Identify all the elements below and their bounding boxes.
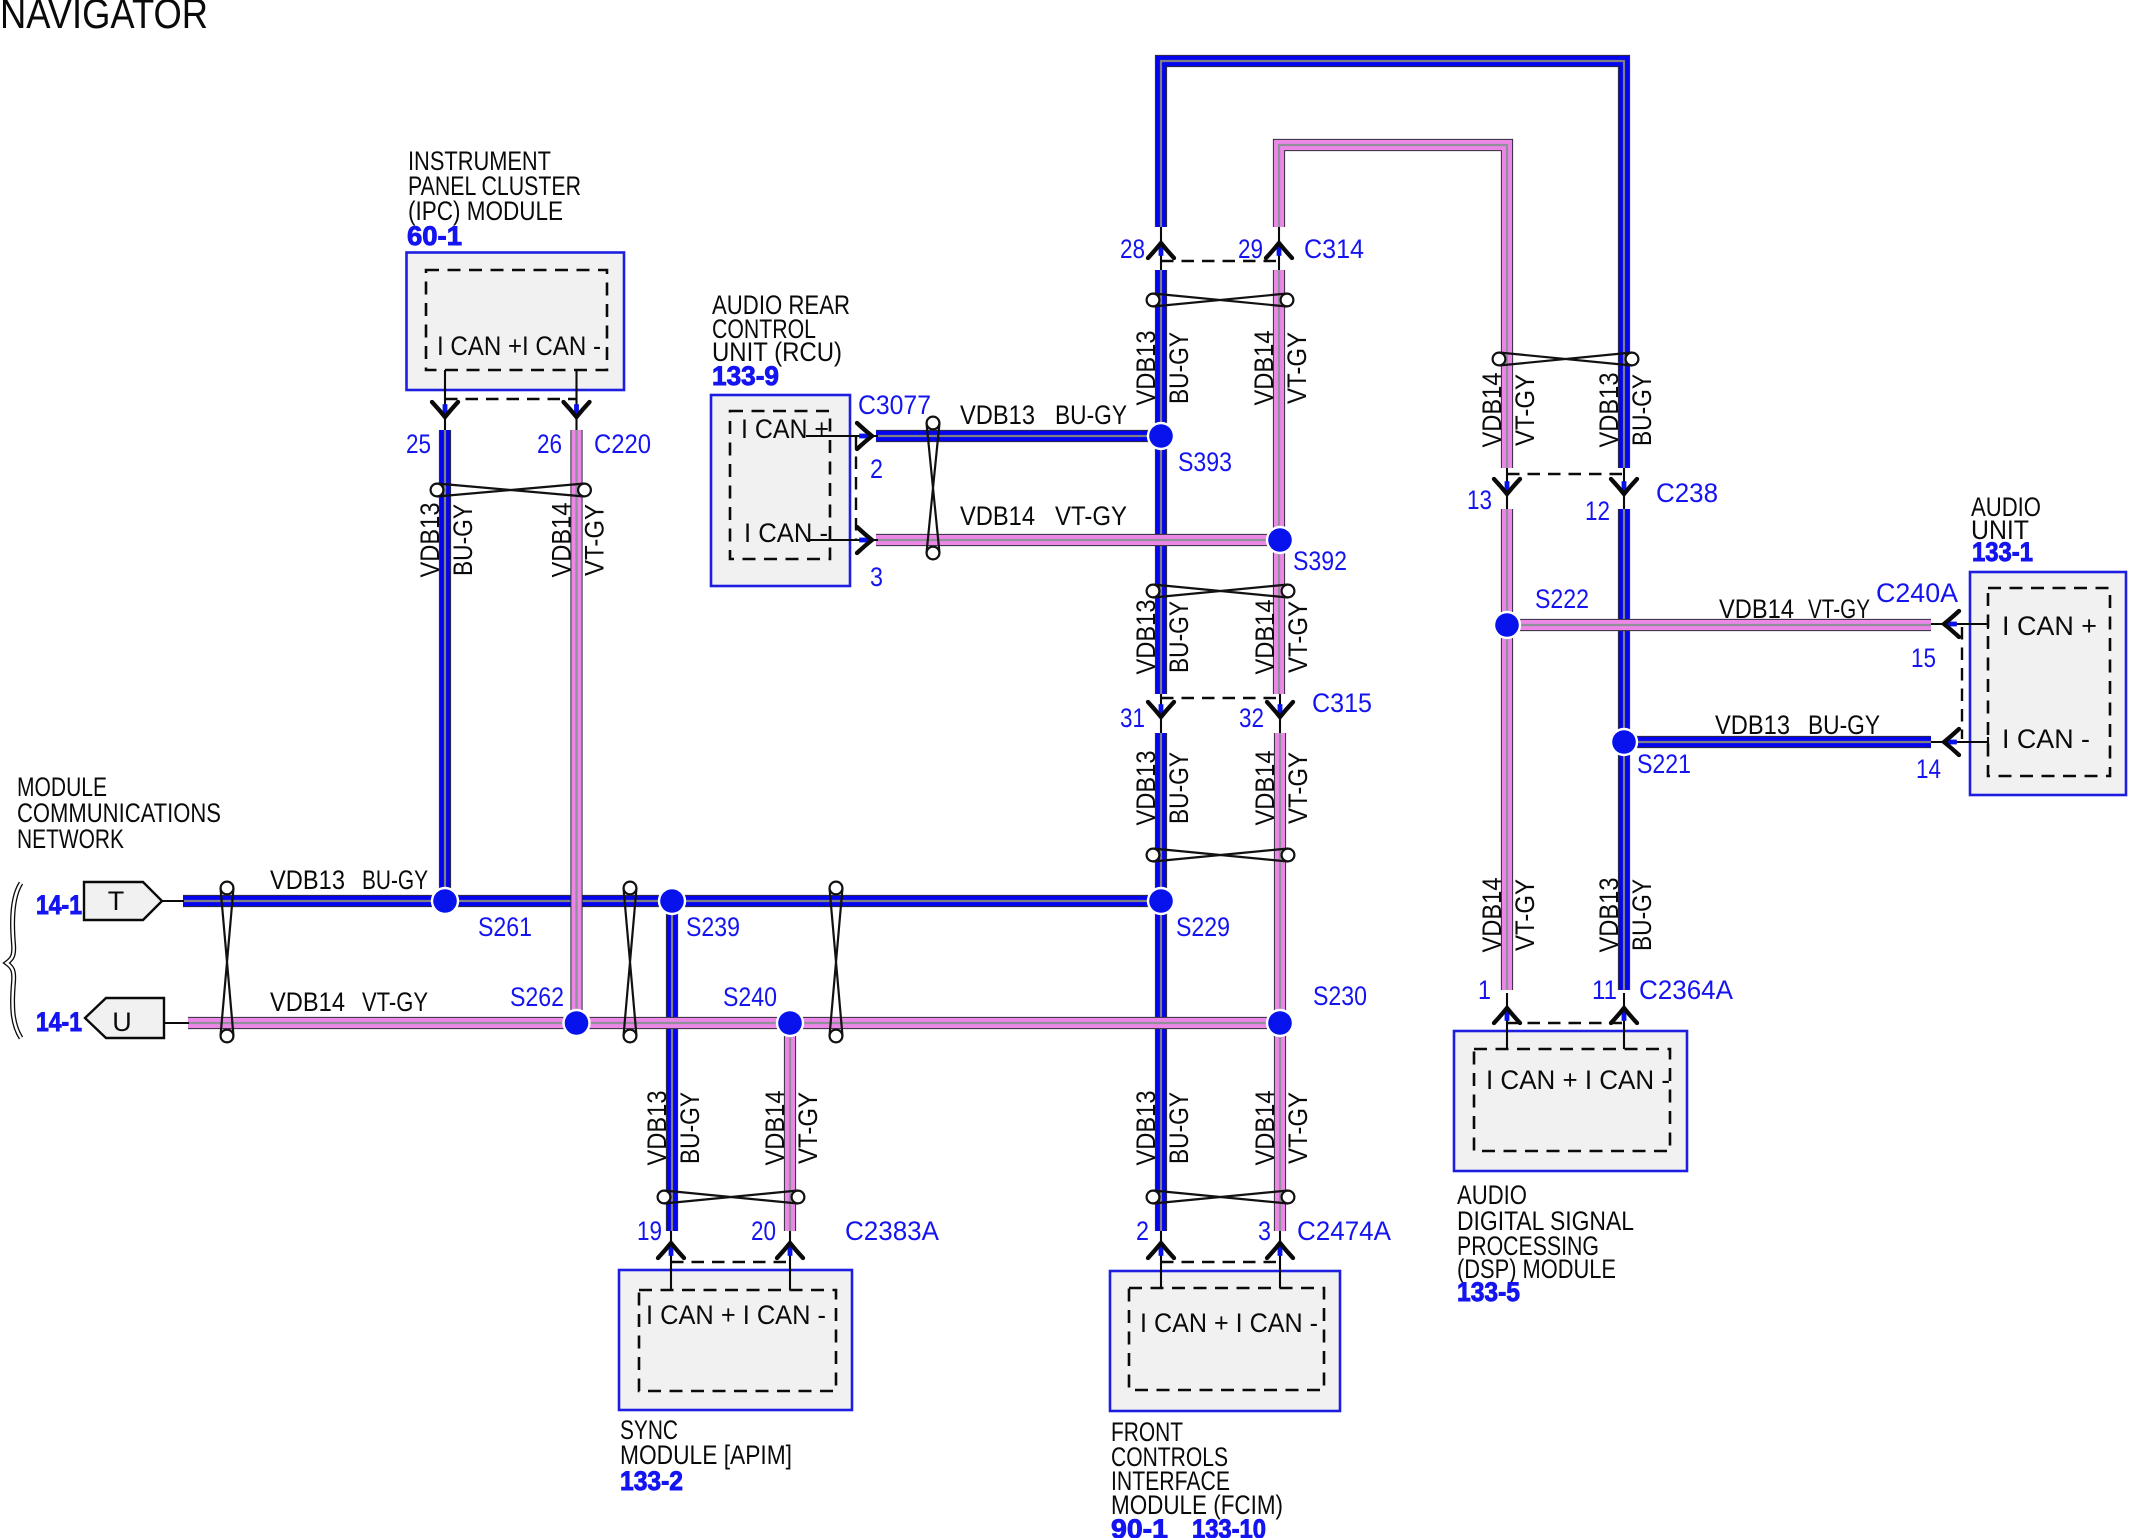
svg-text:C2474A: C2474A — [1297, 1216, 1391, 1246]
SYNC pin20 lead — [789, 1231, 791, 1290]
C315 pin32 arrow — [1267, 702, 1293, 717]
svg-text:BU-GY: BU-GY — [675, 1092, 705, 1164]
connector C238 dashed boundary — [1507, 473, 1624, 475]
FCIM pin3 lead — [1279, 1231, 1281, 1288]
labels VDB14/VT-GY above FCIM — [1250, 1091, 1313, 1166]
FCIM pin2 arrow — [1148, 1243, 1174, 1258]
wire VDB14 top loop pin29 up across to C238 pin13 — [1279, 145, 1507, 468]
RCU pin3 lead — [806, 539, 878, 541]
C238 pin12 arrow — [1611, 479, 1637, 494]
svg-text:25: 25 — [406, 429, 431, 459]
svg-text:20: 20 — [751, 1216, 776, 1246]
svg-text:S240: S240 — [723, 982, 777, 1012]
svg-text:133-10: 133-10 — [1192, 1514, 1266, 1538]
twisted pair symbol above C238 — [1493, 353, 1639, 366]
svg-text:S261: S261 — [478, 912, 532, 942]
Audio Unit pin15 lead — [1931, 623, 1988, 625]
svg-text:VT-GY: VT-GY — [1283, 601, 1313, 673]
svg-text:133-5: 133-5 — [1457, 1277, 1520, 1307]
svg-text:133-2: 133-2 — [620, 1466, 683, 1496]
svg-text:VT-GY: VT-GY — [580, 504, 610, 576]
connector C2364A dashed boundary — [1507, 1022, 1624, 1024]
node T tag (circuit 14-1) — [84, 882, 162, 920]
svg-text:BU-GY: BU-GY — [1164, 1092, 1194, 1164]
svg-text:I CAN +: I CAN + — [2002, 611, 2097, 641]
svg-text:VDB14: VDB14 — [1250, 600, 1280, 675]
wire VDB14 S222 to Audio Unit pin15 — [1507, 619, 1931, 631]
twisted pair symbol above FCIM C2474A — [1147, 1191, 1295, 1204]
splice S230 — [1266, 1009, 1294, 1037]
svg-text:S262: S262 — [510, 982, 564, 1012]
svg-text:VDB13: VDB13 — [415, 503, 445, 578]
wire VDB14 middle vertical C315 to FCIM pin3 — [1274, 733, 1286, 1231]
wire VDB14 IPC pin26 vertical to S262 — [570, 430, 582, 1023]
svg-text:14-1: 14-1 — [36, 890, 82, 920]
svg-text:S221: S221 — [1637, 749, 1691, 779]
wire VDB14 RCU pin3 to S392 — [876, 534, 1280, 546]
svg-text:U: U — [112, 1007, 132, 1037]
FCIM pin3 arrow — [1267, 1243, 1293, 1258]
svg-text:28: 28 — [1120, 234, 1145, 264]
svg-text:VT-GY: VT-GY — [1808, 594, 1870, 624]
labels VDB13/BU-GY above C238 — [1594, 373, 1657, 448]
svg-text:C238: C238 — [1656, 478, 1718, 508]
svg-text:VDB13: VDB13 — [1131, 600, 1161, 675]
module SYNC (APIM) box — [619, 1270, 852, 1410]
svg-text:VDB14: VDB14 — [1249, 331, 1279, 406]
C314 pin28 through line — [1160, 227, 1162, 270]
svg-text:VDB13: VDB13 — [1131, 751, 1161, 826]
svg-text:133-9: 133-9 — [712, 361, 779, 391]
svg-text:BU-GY: BU-GY — [1164, 752, 1194, 824]
Audio Unit pin14 lead — [1931, 741, 1988, 743]
module IPC (Instrument Panel Cluster) box — [407, 253, 625, 391]
svg-text:11: 11 — [1592, 975, 1617, 1005]
svg-text:C2364A: C2364A — [1639, 975, 1733, 1005]
module Audio Unit box — [1970, 572, 2126, 795]
splice S229 — [1147, 887, 1175, 915]
svg-text:2: 2 — [870, 454, 883, 484]
C314 pin28 arrow — [1148, 243, 1174, 258]
DSP pin11 lead — [1623, 993, 1625, 1049]
splice S221 — [1610, 728, 1638, 756]
connector C315 dashed boundary — [1161, 697, 1280, 699]
svg-text:VT-GY: VT-GY — [1055, 501, 1127, 531]
node U tag (circuit 14-1) — [85, 998, 164, 1038]
RCU pin3 arrow — [857, 527, 872, 553]
labels VDB14/VT-GY above C314 — [1249, 331, 1312, 406]
svg-text:I CAN -: I CAN - — [744, 518, 828, 548]
wire VDB13 middle vertical C315 to FCIM pin2 — [1155, 733, 1167, 1231]
IPC pin25 lead — [444, 370, 446, 430]
svg-text:VDB14: VDB14 — [760, 1091, 790, 1166]
svg-text:VDB13: VDB13 — [1131, 331, 1161, 406]
svg-text:29: 29 — [1238, 234, 1263, 264]
labels VDB14/VT-GY on IPC pink drop — [547, 503, 610, 578]
brace for module communications network — [7, 883, 22, 1038]
IPC pin26 lead — [575, 370, 577, 430]
twisted pair symbol below C314 — [1147, 294, 1294, 307]
connector C240A dashed boundary — [1961, 627, 1963, 739]
svg-text:I CAN + I CAN -: I CAN + I CAN - — [1140, 1308, 1318, 1338]
svg-text:VDB13: VDB13 — [960, 400, 1035, 430]
SYNC pin19 lead — [670, 1231, 672, 1290]
splice S222 — [1493, 611, 1521, 639]
DSP pin11 arrow — [1611, 1008, 1637, 1023]
wire VDB13 top loop pin28 up across to C238 pin12 — [1161, 61, 1624, 468]
connector C2474A dashed boundary — [1161, 1261, 1280, 1263]
labels VDB14/VT-GY below C315 — [1250, 751, 1313, 826]
wire VDB13 main bus from T to S229 — [183, 895, 1161, 907]
splice S261 — [431, 887, 459, 915]
labels VDB14/VT-GY above DSP — [1477, 878, 1540, 953]
connector C220 dashed boundary — [445, 398, 576, 400]
twisted pair symbol below IPC C220 — [431, 484, 591, 497]
labels VDB14/VT-GY below S392 — [1250, 600, 1313, 675]
svg-text:VDB13: VDB13 — [1594, 373, 1624, 448]
labels VDB13/BU-GY above DSP — [1594, 878, 1657, 953]
svg-text:VT-GY: VT-GY — [1283, 1092, 1313, 1164]
svg-text:S222: S222 — [1535, 584, 1589, 614]
svg-text:S239: S239 — [686, 912, 740, 942]
DSP pin1 arrow — [1494, 1008, 1520, 1023]
svg-text:NAVIGATOR: NAVIGATOR — [0, 0, 208, 37]
svg-text:3: 3 — [870, 562, 883, 592]
wire lead from T tag — [162, 900, 184, 902]
SYNC pin19 arrow — [658, 1243, 684, 1258]
wire VDB13 IPC pin25 vertical to S261 — [439, 430, 451, 901]
labels VDB13/BU-GY above FCIM — [1131, 1091, 1194, 1166]
wire VDB13 middle vertical C314 to C315 — [1155, 270, 1167, 694]
wire VDB14 middle vertical C314 to C315 — [1273, 270, 1285, 694]
labels VDB14/VT-GY above SYNC — [760, 1091, 823, 1166]
svg-text:VT-GY: VT-GY — [1283, 752, 1313, 824]
twisted pair symbol below S392 — [1147, 585, 1295, 598]
twisted pair symbol above S229 — [1147, 849, 1295, 862]
splice S392 — [1266, 526, 1294, 554]
C315 pin32 through line — [1279, 694, 1281, 733]
svg-text:VDB13: VDB13 — [642, 1091, 672, 1166]
DSP pin1 lead — [1506, 993, 1508, 1049]
svg-text:BU-GY: BU-GY — [362, 865, 428, 895]
FCIM pin2 lead — [1160, 1231, 1162, 1288]
wire VDB13 S221 to Audio Unit pin14 — [1624, 736, 1931, 748]
svg-text:VT-GY: VT-GY — [1510, 374, 1540, 446]
svg-text:VDB13: VDB13 — [270, 865, 345, 895]
svg-text:NETWORK: NETWORK — [17, 824, 124, 854]
wire VDB13 right vertical C238 to DSP pin11 — [1618, 509, 1630, 990]
splice S239 — [658, 887, 686, 915]
svg-text:I CAN -: I CAN - — [2002, 724, 2090, 754]
twisted pair symbol on bus right of S240 — [830, 882, 843, 1043]
module RCU (Audio Rear Control Unit) box — [711, 395, 850, 586]
svg-text:32: 32 — [1239, 703, 1264, 733]
svg-text:C240A: C240A — [1876, 578, 1958, 608]
svg-text:14-1: 14-1 — [36, 1007, 82, 1037]
svg-text:133-1: 133-1 — [1972, 537, 2033, 567]
svg-text:VDB14: VDB14 — [1250, 751, 1280, 826]
IPC pin26 arrow — [564, 402, 590, 417]
svg-text:19: 19 — [637, 1216, 662, 1246]
wire VDB14 right vertical C238 to DSP pin1 — [1501, 509, 1513, 990]
svg-text:C314: C314 — [1304, 234, 1364, 264]
svg-text:3: 3 — [1258, 1216, 1271, 1246]
connector C3077 dashed boundary — [855, 436, 857, 540]
C238 pin13 arrow — [1494, 479, 1520, 494]
twisted pair symbol on bus near T/U tags — [221, 882, 234, 1043]
svg-text:C220: C220 — [594, 429, 651, 459]
svg-text:BU-GY: BU-GY — [448, 504, 478, 576]
splice S262 — [562, 1009, 590, 1037]
splice S393 — [1147, 422, 1175, 450]
connector C314 dashed boundary — [1161, 260, 1279, 262]
svg-text:26: 26 — [537, 429, 562, 459]
svg-text:90-1: 90-1 — [1111, 1514, 1168, 1538]
svg-text:VDB14: VDB14 — [1719, 594, 1794, 624]
svg-text:BU-GY: BU-GY — [1055, 400, 1127, 430]
svg-text:T: T — [108, 886, 125, 916]
wire VDB14 S240 down to SYNC pin20 — [784, 1023, 796, 1231]
svg-text:1: 1 — [1478, 975, 1491, 1005]
SYNC pin20 arrow — [777, 1243, 803, 1258]
twisted pair symbol on RCU wires — [927, 417, 940, 560]
Audio Unit pin15 arrow — [1944, 611, 1959, 637]
C238 pin13 through line — [1506, 468, 1508, 509]
svg-text:13: 13 — [1467, 485, 1492, 515]
splice S240 — [776, 1009, 804, 1037]
IPC pin25 arrow — [432, 402, 458, 417]
labels VDB13/BU-GY above SYNC — [642, 1091, 705, 1166]
svg-text:S229: S229 — [1176, 912, 1230, 942]
svg-text:2: 2 — [1136, 1216, 1149, 1246]
svg-text:I CAN + I CAN -: I CAN + I CAN - — [1486, 1065, 1670, 1095]
svg-text:VT-GY: VT-GY — [1282, 332, 1312, 404]
twisted pair symbol above SYNC C2383A — [658, 1191, 805, 1204]
svg-text:BU-GY: BU-GY — [1627, 374, 1657, 446]
svg-text:12: 12 — [1585, 496, 1610, 526]
svg-text:S393: S393 — [1178, 447, 1232, 477]
labels VDB13/BU-GY above C314 — [1131, 331, 1194, 406]
svg-text:VT-GY: VT-GY — [1510, 879, 1540, 951]
C314 pin29 arrow — [1266, 243, 1292, 258]
C314 pin29 through line — [1278, 227, 1280, 270]
labels VDB14/VT-GY above C238 — [1477, 373, 1540, 448]
svg-text:VDB14: VDB14 — [960, 501, 1035, 531]
labels VDB13/BU-GY below S393 — [1131, 600, 1194, 675]
svg-text:VDB14: VDB14 — [1250, 1091, 1280, 1166]
wire lead from U tag — [164, 1022, 189, 1024]
svg-text:BU-GY: BU-GY — [1627, 879, 1657, 951]
svg-text:I CAN + I CAN -: I CAN + I CAN - — [646, 1300, 826, 1330]
svg-text:S230: S230 — [1313, 981, 1367, 1011]
labels VDB13/BU-GY on IPC blue drop — [415, 503, 478, 578]
labels VDB13/BU-GY below C315 — [1131, 751, 1194, 826]
svg-text:VT-GY: VT-GY — [793, 1092, 823, 1164]
svg-text:BU-GY: BU-GY — [1164, 332, 1194, 404]
svg-text:15: 15 — [1911, 643, 1936, 673]
Audio Unit pin14 arrow — [1944, 729, 1959, 755]
svg-text:VDB14: VDB14 — [547, 503, 577, 578]
svg-text:I CAN +: I CAN + — [741, 414, 829, 444]
C238 pin12 through line — [1623, 468, 1625, 509]
connector C2383A dashed boundary — [671, 1261, 790, 1263]
svg-text:60-1: 60-1 — [407, 221, 462, 251]
RCU pin2 arrow — [857, 423, 872, 449]
svg-text:C3077: C3077 — [858, 390, 931, 420]
C315 pin31 arrow — [1148, 702, 1174, 717]
svg-text:BU-GY: BU-GY — [1164, 601, 1194, 673]
wire VDB13 RCU pin2 to S393 — [876, 430, 1161, 442]
svg-text:C315: C315 — [1312, 688, 1372, 718]
svg-text:VDB14: VDB14 — [270, 987, 345, 1017]
svg-text:VDB14: VDB14 — [1477, 373, 1507, 448]
svg-text:S392: S392 — [1293, 546, 1347, 576]
wire VDB13 S239 down to SYNC pin19 — [666, 901, 678, 1231]
svg-text:VDB13: VDB13 — [1594, 878, 1624, 953]
svg-text:VDB13: VDB13 — [1131, 1091, 1161, 1166]
svg-text:VT-GY: VT-GY — [362, 987, 428, 1017]
svg-text:31: 31 — [1120, 703, 1145, 733]
twisted pair symbol on bus right of S262 — [624, 882, 637, 1043]
svg-text:I CAN +I CAN -: I CAN +I CAN - — [437, 331, 601, 361]
svg-text:VDB14: VDB14 — [1477, 878, 1507, 953]
wire VDB14 main bus from U to S230 — [188, 1017, 1280, 1029]
svg-text:BU-GY: BU-GY — [1808, 710, 1880, 740]
svg-text:14: 14 — [1916, 754, 1941, 784]
RCU pin2 lead — [806, 435, 878, 437]
svg-text:C2383A: C2383A — [845, 1216, 939, 1246]
module FCIM box — [1110, 1271, 1340, 1411]
svg-text:VDB13: VDB13 — [1715, 710, 1790, 740]
C315 pin31 through line — [1160, 694, 1162, 733]
module DSP box — [1454, 1031, 1687, 1171]
